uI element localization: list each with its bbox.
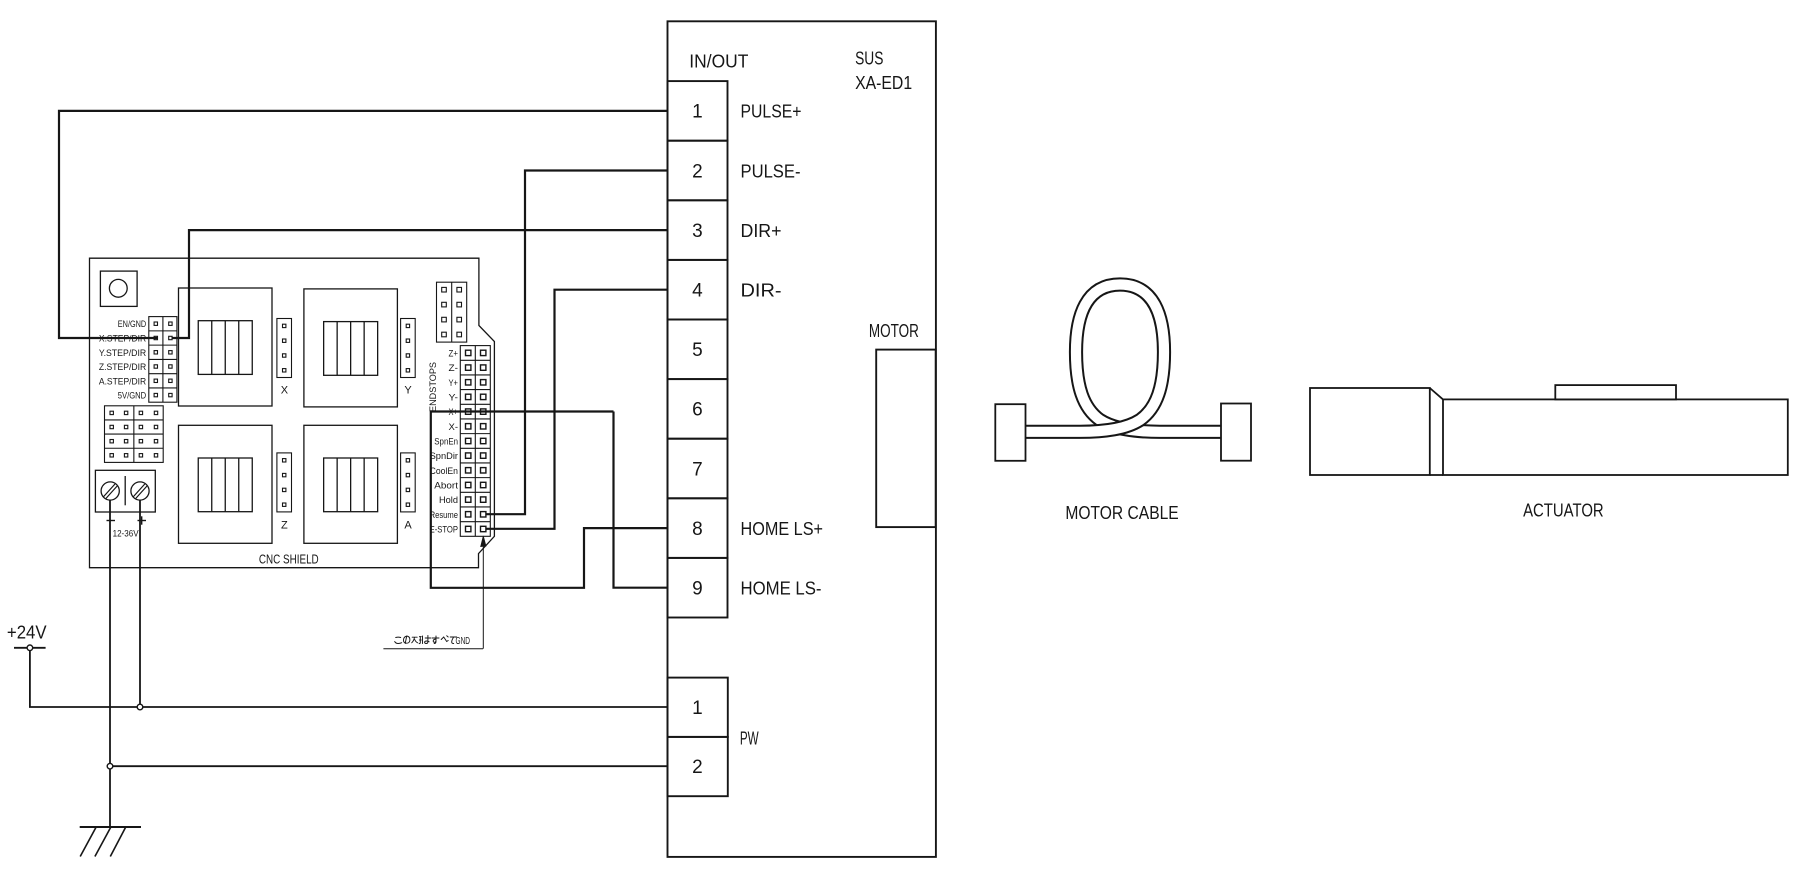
svg-text:Y: Y — [404, 385, 412, 397]
svg-text:+24V: +24V — [7, 621, 47, 642]
svg-text:Z: Z — [281, 520, 288, 532]
wire +24V to PW1 — [30, 651, 668, 707]
control header J1 (EN/GND..5V/GND) — [149, 317, 177, 403]
actuator motor block — [1310, 388, 1430, 475]
svg-text:Z-: Z- — [449, 363, 459, 374]
svg-text:DIR-: DIR- — [741, 280, 782, 301]
terminal IN/OUT pin 1 box — [668, 81, 728, 141]
svg-text:HOME LS+: HOME LS+ — [741, 518, 824, 539]
svg-text:X: X — [281, 385, 289, 397]
svg-text:12-36V: 12-36V — [113, 528, 140, 538]
svg-text:DIR+: DIR+ — [741, 220, 782, 241]
screw terminal + — [131, 482, 149, 500]
svg-text:SUS: SUS — [855, 48, 883, 69]
svg-text:CNC SHIELD: CNC SHIELD — [259, 552, 319, 567]
svg-text:2: 2 — [692, 757, 703, 778]
wire shield - terminal to ground — [109, 500, 111, 827]
terminal IN/OUT pin 9 box — [668, 558, 728, 618]
svg-text:3: 3 — [692, 221, 703, 242]
svg-text:Y+: Y+ — [449, 378, 459, 389]
svg-text:Resume: Resume — [430, 510, 458, 521]
motor header A — [401, 453, 416, 512]
controller U1 SUS XA-ED1 outline — [668, 21, 936, 857]
motor cable connector (left) — [995, 404, 1025, 461]
svg-text:X+: X+ — [449, 407, 459, 418]
driver socket X — [179, 288, 273, 406]
aux header J3 (2x4) — [437, 282, 467, 342]
actuator bevel — [1430, 388, 1443, 399]
svg-text:1: 1 — [692, 698, 703, 719]
svg-text:A.STEP/DIR: A.STEP/DIR — [99, 376, 146, 387]
motor cable loop (over strand) — [1025, 285, 1165, 432]
svg-text:1: 1 — [692, 102, 703, 123]
wire PULSE- (pin2 to Resume GND) — [486, 171, 668, 515]
svg-text:HOME LS-: HOME LS- — [741, 578, 822, 599]
note text (kana) この列はすべて — [395, 636, 457, 644]
wire HOME LS- (pin9 to X+ GND) — [614, 412, 668, 588]
svg-text:MOTOR CABLE: MOTOR CABLE — [1065, 502, 1178, 523]
+24V supply terminal — [14, 647, 46, 649]
svg-text:MOTOR: MOTOR — [869, 320, 919, 341]
svg-text:5V/GND: 5V/GND — [118, 391, 147, 402]
aux pin grid J2 — [105, 406, 164, 463]
terminal PW pin 2 box — [668, 737, 728, 796]
ENDSTOPS header J4 — [460, 346, 490, 537]
note leader line (GND column) — [482, 545, 484, 649]
terminal PW pin 1 box — [668, 678, 728, 737]
svg-text:PULSE+: PULSE+ — [741, 101, 802, 122]
svg-text:5: 5 — [692, 340, 703, 361]
reset button SW1 — [100, 271, 137, 306]
svg-text:IN/OUT: IN/OUT — [689, 50, 748, 71]
terminal IN/OUT pin 5 box — [668, 320, 728, 380]
svg-text:8: 8 — [692, 519, 703, 540]
svg-text:Y.STEP/DIR: Y.STEP/DIR — [99, 348, 146, 359]
svg-text:ACTUATOR: ACTUATOR — [1523, 500, 1604, 521]
wire DIR+ (pin3 to X.STEP/DIR) — [172, 230, 668, 338]
svg-text:EN/GND: EN/GND — [118, 319, 147, 330]
svg-text:4: 4 — [692, 281, 703, 302]
svg-text:Hold: Hold — [439, 495, 458, 506]
motor cable connector (right) — [1221, 404, 1251, 461]
svg-text:7: 7 — [692, 459, 703, 480]
driver socket A — [304, 425, 398, 543]
driver socket Y — [304, 289, 398, 407]
wire DIR- (pin4 to E-STOP GND) — [486, 290, 668, 529]
svg-text:Y-: Y- — [449, 392, 459, 403]
motor cable loop (under strand) — [1076, 285, 1222, 432]
svg-text:PW: PW — [740, 727, 759, 748]
junction node — [107, 763, 113, 769]
motor header Y — [401, 319, 416, 378]
svg-text:GND: GND — [456, 636, 471, 647]
terminal IN/OUT pin 8 box — [668, 498, 728, 558]
motor header X — [277, 319, 292, 378]
actuator slider — [1555, 385, 1676, 399]
svg-text:ENDSTOPS: ENDSTOPS — [428, 362, 439, 412]
svg-text:9: 9 — [692, 579, 703, 600]
svg-text:SpnEn: SpnEn — [434, 436, 458, 447]
wire HOME LS+ (pin8 to X+ row) — [431, 412, 668, 588]
ground symbol — [80, 826, 141, 828]
label - — [107, 520, 116, 522]
wire GND to PW2 — [110, 765, 668, 767]
svg-text:CoolEn: CoolEn — [430, 466, 458, 477]
svg-text:Z+: Z+ — [449, 348, 459, 359]
MOTOR connector box — [876, 350, 936, 527]
actuator base joint — [1430, 474, 1443, 476]
svg-text:Abort: Abort — [434, 480, 458, 491]
svg-text:PULSE-: PULSE- — [741, 160, 801, 181]
motor header Z — [277, 453, 292, 512]
terminal IN/OUT pin 2 box — [668, 141, 728, 201]
CNC shield board outline — [90, 258, 495, 568]
svg-text:X-: X- — [449, 422, 459, 433]
terminal IN/OUT pin 3 box — [668, 200, 728, 260]
svg-text:E-STOP: E-STOP — [430, 524, 458, 535]
driver socket Z — [179, 425, 273, 543]
svg-text:Z.STEP/DIR: Z.STEP/DIR — [99, 362, 146, 373]
svg-text:SpnDir: SpnDir — [430, 451, 458, 462]
terminal IN/OUT pin 4 box — [668, 260, 728, 320]
power terminal block 12-36V — [95, 470, 155, 512]
terminal IN/OUT pin 7 box — [668, 439, 728, 499]
svg-text:2: 2 — [692, 161, 703, 182]
arrowhead — [481, 536, 486, 547]
label + — [138, 520, 147, 522]
actuator body — [1443, 399, 1788, 475]
wire PULSE+ (pin1 to X.STEP/DIR) — [59, 111, 668, 338]
terminal IN/OUT pin 6 box — [668, 379, 728, 439]
svg-text:XA-ED1: XA-ED1 — [855, 72, 912, 93]
svg-text:6: 6 — [692, 400, 703, 421]
svg-text:A: A — [404, 520, 412, 532]
wire shield + terminal to +24V rail — [139, 500, 141, 707]
junction node — [137, 704, 143, 710]
screw terminal - — [101, 482, 119, 500]
